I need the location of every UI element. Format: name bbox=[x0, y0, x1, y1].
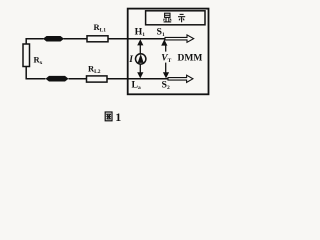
svg-text:1: 1 bbox=[115, 110, 121, 124]
svg-text:DMM: DMM bbox=[178, 54, 203, 64]
svg-text:I: I bbox=[128, 55, 133, 65]
